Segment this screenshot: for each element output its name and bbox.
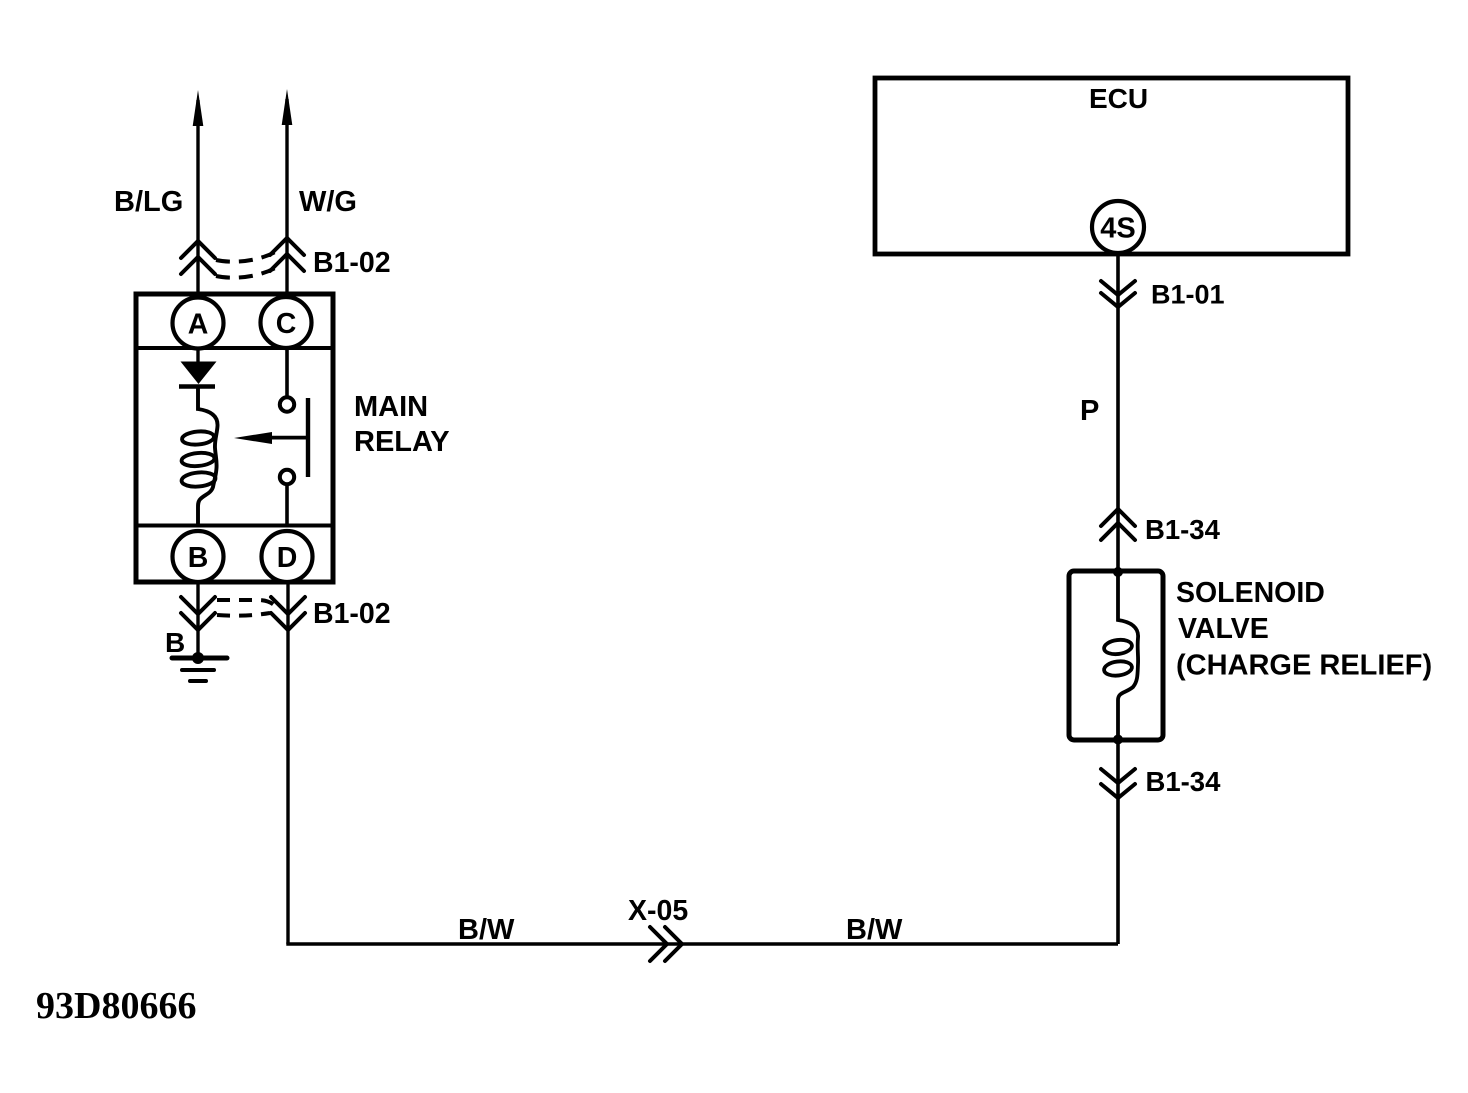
- main relay inner top line: [136, 346, 333, 350]
- terminal D: [262, 531, 313, 582]
- ECU pin 4S circle: [1092, 201, 1144, 253]
- solenoid coil loop 1: [1103, 638, 1132, 655]
- switch contact circle upper: [280, 397, 294, 411]
- svg-text:D: D: [277, 542, 298, 574]
- svg-text:X-05: X-05: [628, 895, 688, 927]
- relay coil loop 2: [181, 452, 215, 468]
- terminal B: [173, 531, 224, 582]
- wire D down from relay: [286, 583, 289, 944]
- relay coil loop 1: [181, 430, 214, 446]
- connector B1-02 upper, chevrons on B/LG wire: [181, 241, 215, 274]
- ECU box: [875, 78, 1348, 254]
- wire W/G vertical (to battery, right): [285, 99, 288, 296]
- connector B1-02 upper, chevrons on W/G wire: [270, 238, 304, 271]
- svg-text:B: B: [188, 542, 209, 574]
- svg-text:B1-34: B1-34: [1146, 766, 1222, 797]
- main relay inner bottom line: [136, 524, 333, 528]
- connector B1-02 upper, dashed connector body: [216, 251, 277, 278]
- junction dot bottom of solenoid: [1113, 735, 1123, 745]
- solenoid valve box: [1069, 571, 1163, 740]
- switch actuator arrow: [260, 436, 306, 440]
- diode cathode bar: [179, 384, 215, 388]
- connector B1-34 lower chevrons: [1101, 769, 1135, 798]
- diode D (relay clamp) anode triangle: [181, 362, 217, 385]
- bottom wire B/W horizontal: [286, 942, 1118, 945]
- connector B1-34 upper chevrons: [1101, 509, 1135, 540]
- connector B1-02 lower, chevrons on D wire: [271, 597, 305, 630]
- arrowhead B/LG wire: [193, 90, 204, 126]
- wire switch to D: [285, 486, 289, 526]
- terminal C: [261, 297, 312, 348]
- connector B1-02 lower, dashed connector body: [217, 600, 276, 616]
- main relay box outline: [136, 294, 333, 582]
- relay coil loop 3: [181, 471, 216, 488]
- wire B/LG vertical (to battery, left): [196, 100, 199, 296]
- svg-text:B/LG: B/LG: [114, 186, 183, 218]
- wire ECU 4S to solenoid valve (net P): [1116, 254, 1120, 571]
- svg-text:B1-02: B1-02: [313, 598, 391, 630]
- wire C to switch contact: [285, 348, 289, 396]
- ground symbol: [172, 658, 227, 681]
- wire A to diode: [196, 349, 199, 364]
- svg-text:B1-01: B1-01: [1151, 280, 1225, 310]
- ground junction dot: [192, 652, 204, 664]
- junction dot top of solenoid: [1113, 567, 1123, 577]
- svg-text:A: A: [188, 309, 209, 341]
- relay coil L: [198, 388, 218, 526]
- solenoid coil loop 2: [1103, 660, 1132, 677]
- svg-text:B: B: [165, 627, 185, 658]
- svg-text:RELAY: RELAY: [354, 426, 450, 458]
- wire solenoid valve to B/W bottom wire: [1116, 740, 1120, 944]
- svg-text:B1-02: B1-02: [313, 247, 391, 279]
- svg-text:VALVE: VALVE: [1178, 613, 1269, 645]
- svg-text:93D80666: 93D80666: [36, 985, 196, 1027]
- svg-text:P: P: [1080, 395, 1099, 427]
- svg-text:4S: 4S: [1100, 213, 1135, 245]
- svg-text:ECU: ECU: [1089, 83, 1148, 114]
- svg-text:C: C: [276, 308, 297, 340]
- connector B1-02 lower, chevrons on B wire: [181, 597, 215, 630]
- switch contact circle lower: [280, 470, 294, 484]
- solenoid coil: [1118, 574, 1138, 738]
- svg-text:(CHARGE RELIEF): (CHARGE RELIEF): [1176, 650, 1432, 682]
- svg-text:MAIN: MAIN: [354, 391, 428, 423]
- connector X-05 chevrons: [650, 927, 682, 961]
- svg-text:W/G: W/G: [299, 186, 357, 218]
- svg-text:B/W: B/W: [846, 914, 903, 946]
- switch actuator bar: [306, 398, 310, 477]
- wire B to ground chevron: [196, 583, 199, 658]
- connector B1-01 chevrons: [1101, 281, 1135, 307]
- svg-text:SOLENOID: SOLENOID: [1176, 577, 1325, 609]
- terminal A: [173, 298, 224, 349]
- arrowhead W/G wire: [282, 89, 293, 125]
- svg-text:B/W: B/W: [458, 914, 515, 946]
- svg-text:B1-34: B1-34: [1145, 514, 1221, 545]
